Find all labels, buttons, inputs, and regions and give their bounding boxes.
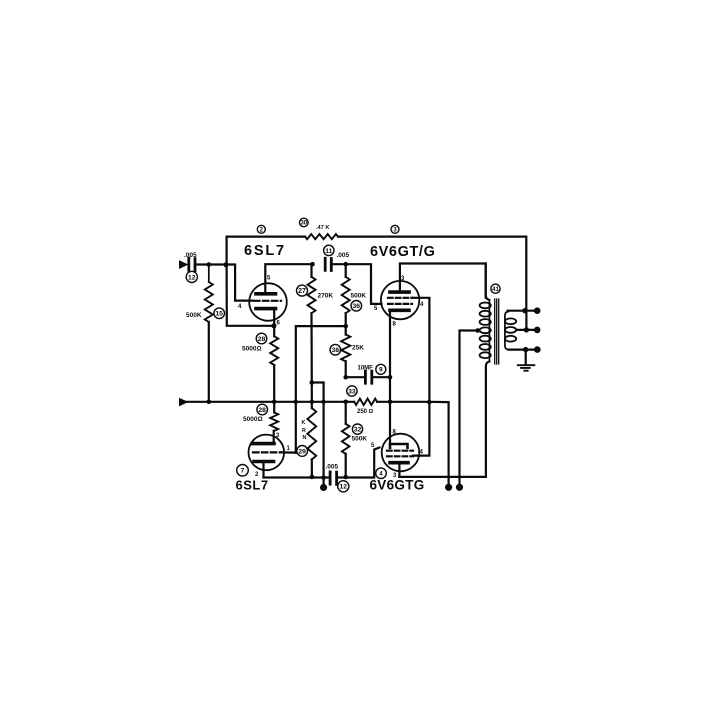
node 2 [257,225,265,233]
tube V1 6SL7 upper envelope [249,283,287,321]
resistor R28 5000 ohm upper [270,336,278,365]
wire inverter node line [296,326,346,453]
tube V1 grid dashes [254,300,281,302]
resistor R30 .47K [305,234,338,239]
wire 25K bottom [345,361,347,377]
capacitor C11 .005 plates [325,258,331,270]
node 7 [237,465,249,477]
junction 270K/KRN node [310,380,315,385]
terminal stub dot CT [456,484,463,491]
svg-text:6SL7: 6SL7 [236,478,269,493]
tube V3 plate lead pin3 [400,264,486,298]
svg-text:.005: .005 [184,252,197,259]
tube V4 grid lead pin4 [413,402,429,456]
svg-text:28: 28 [258,336,266,343]
tube V4 grid2 dashes [387,455,413,457]
svg-text:250 Ω: 250 Ω [357,409,374,415]
junction bus/500K [207,400,212,405]
tube V2 plate [254,460,274,464]
svg-text:5000Ω: 5000Ω [243,416,262,423]
wire x324 stub [323,478,325,488]
junction sec bottom [523,347,528,352]
wire to 10MF [346,376,390,378]
ground [518,365,535,371]
wire jog to x324 [312,383,324,478]
svg-text:12: 12 [340,484,348,491]
svg-text:K: K [302,420,306,426]
tube V3 grid2 dashes [388,303,412,305]
tube V2 grid lead pin1 [281,451,296,453]
node 33 [347,386,357,396]
tube V3 cathode lead pin8 [389,310,391,402]
wire V4 plate to primary bottom [399,362,489,477]
svg-text:36: 36 [353,303,361,310]
resistor R27 270K zigzag [308,277,316,313]
wire cap12b right [337,402,346,478]
wire 5000-2 top [273,402,275,413]
junction bus/25K line [343,400,348,405]
svg-text:.47 K: .47 K [316,225,329,231]
terminal stub dot right [445,484,452,491]
node 11 [324,245,334,255]
junction feedback/secondary top [522,308,527,313]
wire feedback drop continue [525,311,527,330]
junction cap12b/25K line [343,475,348,480]
svg-text:41: 41 [492,287,499,293]
node 29 [297,446,308,457]
wire 500K to bus [208,322,210,402]
wire to ground [525,350,527,365]
tube V4 grid1 dashes [387,450,413,452]
junction 500K2/25K node [343,324,348,329]
junction bus crossing blob B [310,400,314,404]
svg-text:25K: 25K [352,345,364,352]
terminal dot sec3 [534,346,541,353]
svg-text:270K: 270K [318,293,334,300]
capacitor C12b .005 plates [330,472,337,484]
tube V3 cathode [390,308,409,312]
svg-text:38: 38 [332,347,340,354]
wire secondary bottom lead [509,349,538,351]
tube V2 grid dashes [253,451,281,453]
junction KRN bottom [310,475,315,480]
wire KRN bottom [311,460,313,477]
tube V1 cathode lead pin6 [273,309,275,326]
svg-text:500K: 500K [351,292,367,299]
node 9 [376,364,386,374]
junction bus/grids [427,400,432,405]
tube V3 grid1 dashes [388,297,412,299]
wire input to grid branch [197,265,253,301]
transformer T41 primary spine [488,300,490,362]
resistor R38 25K zigzag [341,335,350,362]
svg-text:6V6GTG: 6V6GTG [370,478,425,493]
svg-text:28: 28 [258,407,266,414]
svg-text:.005: .005 [337,252,350,259]
terminal dot sec2 [534,327,541,334]
wire 500K-2 top [345,264,347,277]
wire center tap drop [460,331,480,488]
svg-text:9: 9 [379,367,383,374]
junction V1 cathode node [271,323,276,328]
wire 270K bottom [310,313,312,382]
svg-text:33: 33 [348,388,356,395]
transformer T41 core [495,299,499,364]
node 36 [351,301,362,312]
bus terminal [180,399,186,405]
transformer T41 primary winding [480,303,491,309]
svg-text:11: 11 [325,248,332,255]
node 12 lower [338,481,349,492]
node 28 upper [256,333,267,344]
svg-text:29: 29 [298,448,306,455]
tube V3 grid lead pin4 [412,298,429,402]
svg-text:30: 30 [300,221,307,227]
node 15 [214,308,225,319]
svg-text:R: R [302,428,306,434]
svg-text:5000Ω: 5000Ω [242,346,261,353]
transformer T41 designator [491,284,500,293]
svg-text:32: 32 [354,427,362,434]
svg-text:6SL7: 6SL7 [244,243,286,259]
junction 10MF right [388,375,393,380]
node 38 [330,344,341,355]
node 28 lower [257,404,268,415]
tube V2 cathode [253,442,274,446]
wire feedback rail top (node 2 to node 3) [227,237,527,311]
terminal dot sec1 [534,307,541,314]
junction x324 node [321,475,326,480]
wire bus [184,402,449,487]
tube V4 cathode [390,444,408,448]
tube V2 6SL7 lower envelope [248,435,284,471]
resistor R33 250 ohm [354,399,377,405]
resistor R32 500K zigzag [342,424,350,454]
capacitor C12 .005 input plates [189,258,195,270]
junction feedback crossing blob [224,262,229,267]
wire primary top lead [486,264,490,301]
junction input/500K [207,262,212,267]
node 32 [352,424,362,434]
resistor R28b 5000 ohm lower zigzag [270,413,278,431]
svg-text:500K: 500K [352,436,368,443]
transformer T41 secondary spine [505,312,509,350]
svg-text:15: 15 [215,311,223,318]
resistor R36 500K zigzag [342,277,350,313]
wire KRN top [311,383,313,409]
wire feedback to V1 cathode [227,265,274,326]
svg-text:12: 12 [188,274,196,281]
tube V1 cathode [256,307,276,311]
svg-text:500K: 500K [186,312,202,319]
junction sec tap [524,327,529,332]
wire 500K-2 bottom [345,313,347,326]
node 3 [391,225,399,233]
junction 25K/10MF [343,375,348,380]
node 30 [300,218,309,227]
tube V4 6V6GTG envelope [382,434,420,472]
wire V2 plate row [264,476,329,478]
junction plate/270K/cap [310,262,315,267]
node 27 [297,285,308,296]
resistor R15 500K [208,265,210,283]
wire secondary top lead [508,310,537,312]
tube V3 6V6GT/G envelope [381,281,419,319]
resistor R29 KRN zigzag [307,408,316,460]
svg-text:10MF: 10MF [358,366,374,372]
tube V4 plate [390,461,408,465]
junction bus/cathodes [388,400,393,405]
svg-text:4: 4 [379,470,383,477]
svg-text:.005: .005 [326,464,339,471]
svg-text:N: N [303,435,307,441]
node 4 [376,468,387,479]
wire 270K top [310,264,312,277]
capacitor C9 10MF plates [365,371,371,383]
svg-text:6V6GT/G: 6V6GT/G [370,244,435,260]
junction center tap [475,328,480,333]
wire cap C11 right [331,264,381,304]
tube V4 plate lead pin3 [398,463,400,477]
junction bus crossing blob C [321,400,325,404]
input terminal [180,262,186,268]
wire 5000 to bus [273,365,275,402]
tube V2 plate lead pin2 [262,462,264,478]
terminal stub dot mid [320,484,327,491]
capacitor C12 designator [186,271,197,282]
wire secondary tap lead [516,329,537,331]
junction cap11 right node [343,262,348,267]
tube V2 cathode lead [273,431,275,444]
transformer T41 secondary winding [505,318,516,324]
tube V4 cathode lead [389,402,391,444]
tube V3 plate [390,290,409,294]
tube V1 plate [256,292,276,296]
junction bus/5000 [272,400,277,405]
svg-text:7: 7 [241,468,245,475]
wire coupling to V4 grid [346,448,380,478]
junction bus crossing blob A [294,400,298,404]
resistor R15 500K zigzag [205,282,213,322]
wire cathode to zigzag [273,326,275,336]
svg-text:27: 27 [298,288,306,295]
tube V1 plate lead pin5 [265,264,312,294]
